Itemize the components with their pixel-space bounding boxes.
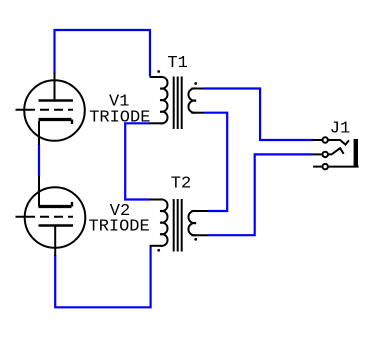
svg-text:T1: T1	[167, 54, 187, 73]
svg-text:TRIODE: TRIODE	[89, 109, 150, 128]
svg-text:J1: J1	[330, 120, 350, 139]
svg-text:TRIODE: TRIODE	[89, 218, 150, 237]
svg-text:T2: T2	[171, 175, 191, 194]
